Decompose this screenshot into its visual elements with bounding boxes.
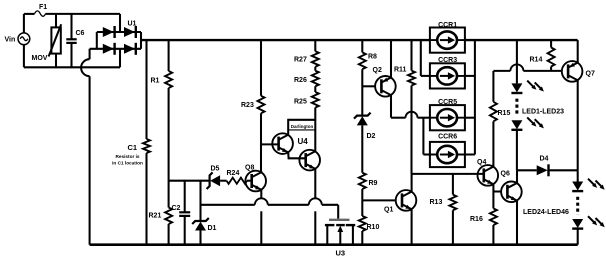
svg-text:LED1-LED23: LED1-LED23	[522, 108, 564, 115]
svg-text:C2: C2	[172, 205, 181, 212]
svg-text:U4: U4	[298, 137, 309, 146]
svg-text:Resistor is: Resistor is	[116, 154, 140, 159]
svg-text:Q2: Q2	[373, 67, 382, 74]
svg-text:R27: R27	[294, 57, 307, 64]
svg-text:in C1 location: in C1 location	[112, 160, 143, 165]
svg-text:CCR6: CCR6	[438, 134, 457, 141]
svg-text:R14: R14	[530, 57, 543, 64]
svg-text:R1: R1	[151, 78, 160, 85]
svg-text:C6: C6	[76, 30, 85, 37]
svg-text:R10: R10	[367, 224, 380, 231]
svg-text:C1: C1	[128, 143, 138, 152]
svg-text:R9: R9	[369, 180, 378, 187]
svg-text:R21: R21	[149, 213, 162, 220]
svg-text:R16: R16	[470, 216, 483, 223]
svg-text:F1: F1	[39, 4, 47, 11]
svg-text:D1: D1	[208, 225, 217, 232]
svg-text:MOV: MOV	[32, 55, 48, 62]
svg-text:Vin: Vin	[5, 37, 16, 44]
svg-text:Q6: Q6	[501, 171, 510, 178]
svg-text:R8: R8	[368, 54, 377, 61]
svg-text:Q8: Q8	[245, 165, 254, 172]
svg-text:Q7: Q7	[586, 71, 595, 78]
svg-text:R26: R26	[294, 77, 307, 84]
svg-text:R23: R23	[241, 102, 254, 109]
svg-text:U3: U3	[336, 249, 346, 258]
svg-text:LED24-LED46: LED24-LED46	[523, 209, 569, 216]
svg-text:R25: R25	[294, 99, 307, 106]
svg-text:R15: R15	[498, 110, 511, 117]
svg-text:D5: D5	[211, 166, 220, 173]
svg-text:D4: D4	[540, 156, 549, 163]
svg-text:Q4: Q4	[477, 159, 486, 166]
svg-text:U1: U1	[128, 21, 137, 28]
svg-text:CCR3: CCR3	[438, 57, 457, 64]
svg-text:Darlington: Darlington	[291, 124, 314, 129]
svg-text:D2: D2	[367, 133, 376, 140]
svg-text:Q1: Q1	[384, 207, 393, 214]
svg-text:R11: R11	[394, 67, 407, 74]
svg-text:CCR1: CCR1	[438, 22, 457, 29]
svg-text:R24: R24	[227, 170, 240, 177]
svg-text:CCR5: CCR5	[438, 99, 457, 106]
svg-text:R13: R13	[430, 199, 443, 206]
